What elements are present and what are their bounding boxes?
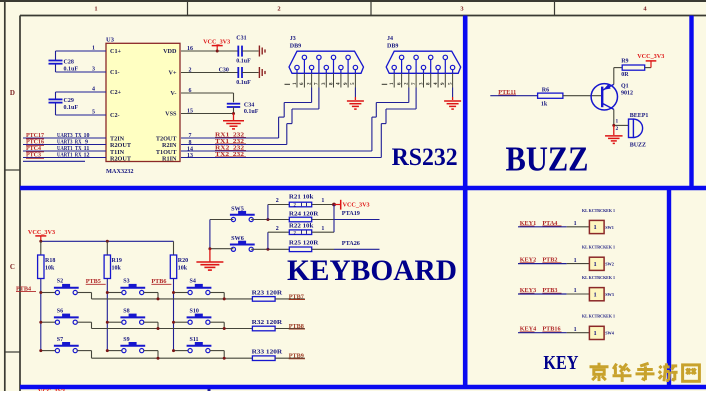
svg-text:C1-: C1-: [110, 69, 120, 76]
svg-text:KEYBOARD: KEYBOARD: [287, 254, 457, 287]
svg-text:C2-: C2-: [110, 112, 120, 119]
svg-text:S4: S4: [190, 279, 196, 285]
svg-text:KL KCTRCKEK 1: KL KCTRCKEK 1: [582, 276, 615, 280]
svg-text:2: 2: [276, 226, 279, 232]
svg-text:R22 10k: R22 10k: [289, 224, 314, 230]
svg-text:1: 1: [594, 330, 597, 337]
svg-text:S8: S8: [123, 308, 129, 314]
svg-text:R33 120R: R33 120R: [252, 350, 283, 356]
svg-text:S11: S11: [190, 337, 199, 343]
svg-text:R18: R18: [45, 258, 55, 264]
svg-text:0R: 0R: [621, 72, 629, 78]
svg-text:U3: U3: [106, 37, 115, 44]
svg-text:VCC_3V3: VCC_3V3: [637, 53, 664, 60]
svg-text:1: 1: [594, 261, 597, 268]
svg-text:1: 1: [594, 224, 597, 231]
svg-text:MAX3232: MAX3232: [106, 168, 134, 175]
svg-text:KL KCTRCKEK 1: KL KCTRCKEK 1: [582, 209, 615, 213]
svg-text:V+: V+: [169, 70, 177, 77]
svg-text:R32 120R: R32 120R: [252, 320, 283, 326]
svg-text:J3: J3: [290, 36, 296, 42]
svg-text:1: 1: [616, 118, 619, 124]
svg-text:BUZZ: BUZZ: [506, 141, 589, 179]
svg-text:S7: S7: [57, 337, 63, 343]
svg-text:0.1uF: 0.1uF: [64, 66, 79, 72]
svg-text:C31: C31: [236, 36, 246, 42]
svg-text:S3: S3: [123, 279, 129, 285]
svg-text:SW2: SW2: [605, 262, 614, 267]
svg-text:BEEP1: BEEP1: [630, 113, 649, 119]
svg-text:S10: S10: [190, 308, 199, 314]
svg-text:2: 2: [276, 198, 279, 204]
svg-text:VCC_3V3: VCC_3V3: [203, 39, 230, 46]
svg-text:1: 1: [594, 291, 597, 298]
svg-text:0.1uF: 0.1uF: [244, 109, 259, 115]
svg-text:J4: J4: [387, 36, 393, 42]
svg-text:R9: R9: [621, 58, 628, 64]
svg-text:KL KCTRCKEK 1: KL KCTRCKEK 1: [582, 246, 615, 250]
svg-text:C28: C28: [64, 59, 74, 65]
svg-text:SW1: SW1: [605, 225, 614, 230]
svg-text:PTC16: PTC16: [26, 140, 44, 146]
svg-text:1: 1: [321, 198, 324, 204]
svg-text:DB9: DB9: [290, 43, 301, 49]
svg-text:PTC3: PTC3: [26, 153, 41, 159]
svg-text:10k: 10k: [178, 265, 188, 271]
svg-text:R1IN: R1IN: [162, 155, 177, 162]
svg-text:10: 10: [84, 133, 90, 139]
svg-text:C1+: C1+: [110, 48, 122, 55]
svg-text:10k: 10k: [112, 265, 122, 271]
svg-text:DB9: DB9: [387, 43, 398, 49]
svg-text:PTA26: PTA26: [342, 240, 360, 247]
svg-text:C2+: C2+: [110, 89, 122, 96]
svg-text:VDD: VDD: [163, 48, 177, 55]
svg-text:10k: 10k: [45, 265, 55, 271]
svg-text:1: 1: [574, 258, 577, 264]
svg-text:VCC_3V3: VCC_3V3: [343, 201, 370, 208]
svg-text:0.1uF: 0.1uF: [236, 59, 251, 65]
svg-text:2: 2: [277, 5, 280, 12]
svg-text:RS232: RS232: [392, 144, 458, 171]
svg-text:V-: V-: [170, 90, 176, 97]
svg-text:R19: R19: [112, 258, 122, 264]
svg-text:12: 12: [84, 153, 90, 159]
svg-text:S9: S9: [123, 337, 129, 343]
svg-text:SW4: SW4: [605, 331, 615, 336]
svg-text:R2OUT: R2OUT: [110, 155, 132, 162]
svg-text:UART3_RX: UART3_RX: [57, 140, 82, 146]
svg-text:C30: C30: [219, 68, 229, 74]
svg-text:9012: 9012: [621, 90, 633, 96]
svg-text:R21 10k: R21 10k: [289, 195, 314, 201]
svg-text:0.1uF: 0.1uF: [236, 80, 251, 86]
svg-text:C: C: [10, 263, 15, 271]
svg-text:R20: R20: [178, 258, 188, 264]
svg-text:13: 13: [187, 153, 193, 159]
svg-text:UART3_TX: UART3_TX: [57, 133, 82, 139]
svg-text:0.1uF: 0.1uF: [64, 105, 79, 111]
svg-text:Q1: Q1: [621, 84, 629, 90]
svg-text:C29: C29: [64, 98, 74, 104]
svg-text:BUZZ: BUZZ: [630, 143, 646, 149]
svg-text:S2: S2: [57, 279, 63, 285]
svg-text:1: 1: [321, 226, 324, 232]
svg-text:R23 120R: R23 120R: [252, 290, 283, 296]
svg-text:9: 9: [85, 140, 88, 146]
svg-text:KEY: KEY: [543, 352, 578, 374]
svg-text:11: 11: [84, 146, 90, 152]
svg-text:UART1_RX: UART1_RX: [57, 153, 82, 159]
svg-text:KL KCTRCKEK 1: KL KCTRCKEK 1: [582, 315, 615, 319]
svg-text:R25 120R: R25 120R: [289, 240, 319, 246]
svg-text:SW3: SW3: [605, 292, 614, 297]
svg-text:1: 1: [94, 5, 97, 12]
svg-text:2: 2: [616, 126, 619, 132]
svg-text:1: 1: [574, 327, 577, 333]
svg-text:1: 1: [574, 288, 577, 294]
svg-text:C34: C34: [244, 103, 254, 109]
svg-text:R6: R6: [542, 88, 549, 94]
svg-text:PTA19: PTA19: [342, 210, 360, 217]
svg-text:1k: 1k: [541, 101, 548, 107]
svg-text:PTC4: PTC4: [26, 146, 41, 152]
svg-text:1: 1: [574, 221, 577, 227]
svg-text:R24 120R: R24 120R: [289, 211, 319, 217]
svg-text:VSS: VSS: [165, 111, 177, 118]
svg-text:D: D: [10, 89, 15, 97]
svg-text:S6: S6: [57, 308, 63, 314]
svg-text:PTC17: PTC17: [26, 133, 44, 139]
svg-text:UART1_TX: UART1_TX: [57, 146, 82, 152]
